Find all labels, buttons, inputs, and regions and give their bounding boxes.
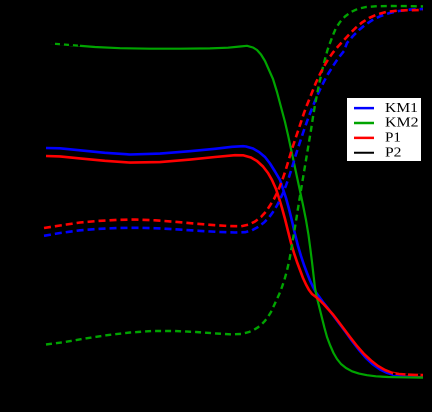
curve P1 dashed (red) xyxy=(44,10,423,228)
curve KM1 dashed (blue) xyxy=(44,9,423,236)
curve P1 solid (red) xyxy=(46,155,423,375)
legend sample P2 xyxy=(354,152,374,154)
svg-text:KM1: KM1 xyxy=(385,101,418,116)
legend sample KM2 xyxy=(354,122,374,125)
curve KM2 solid (green) xyxy=(51,44,423,378)
black dash overlay on green start (P2 crossing artifact) xyxy=(51,44,80,46)
svg-text:KM2: KM2 xyxy=(385,116,419,131)
black dash overlay on red tail (P2 crossing artifact) xyxy=(393,374,423,375)
curve KM2 dashed (green) xyxy=(46,6,423,345)
legend box xyxy=(347,98,421,161)
curve KM1 solid (blue) xyxy=(46,146,423,377)
svg-text:P1: P1 xyxy=(385,131,401,146)
svg-text:P2: P2 xyxy=(385,146,402,161)
legend sample KM1 xyxy=(354,107,374,110)
legend sample P1 xyxy=(354,137,374,140)
